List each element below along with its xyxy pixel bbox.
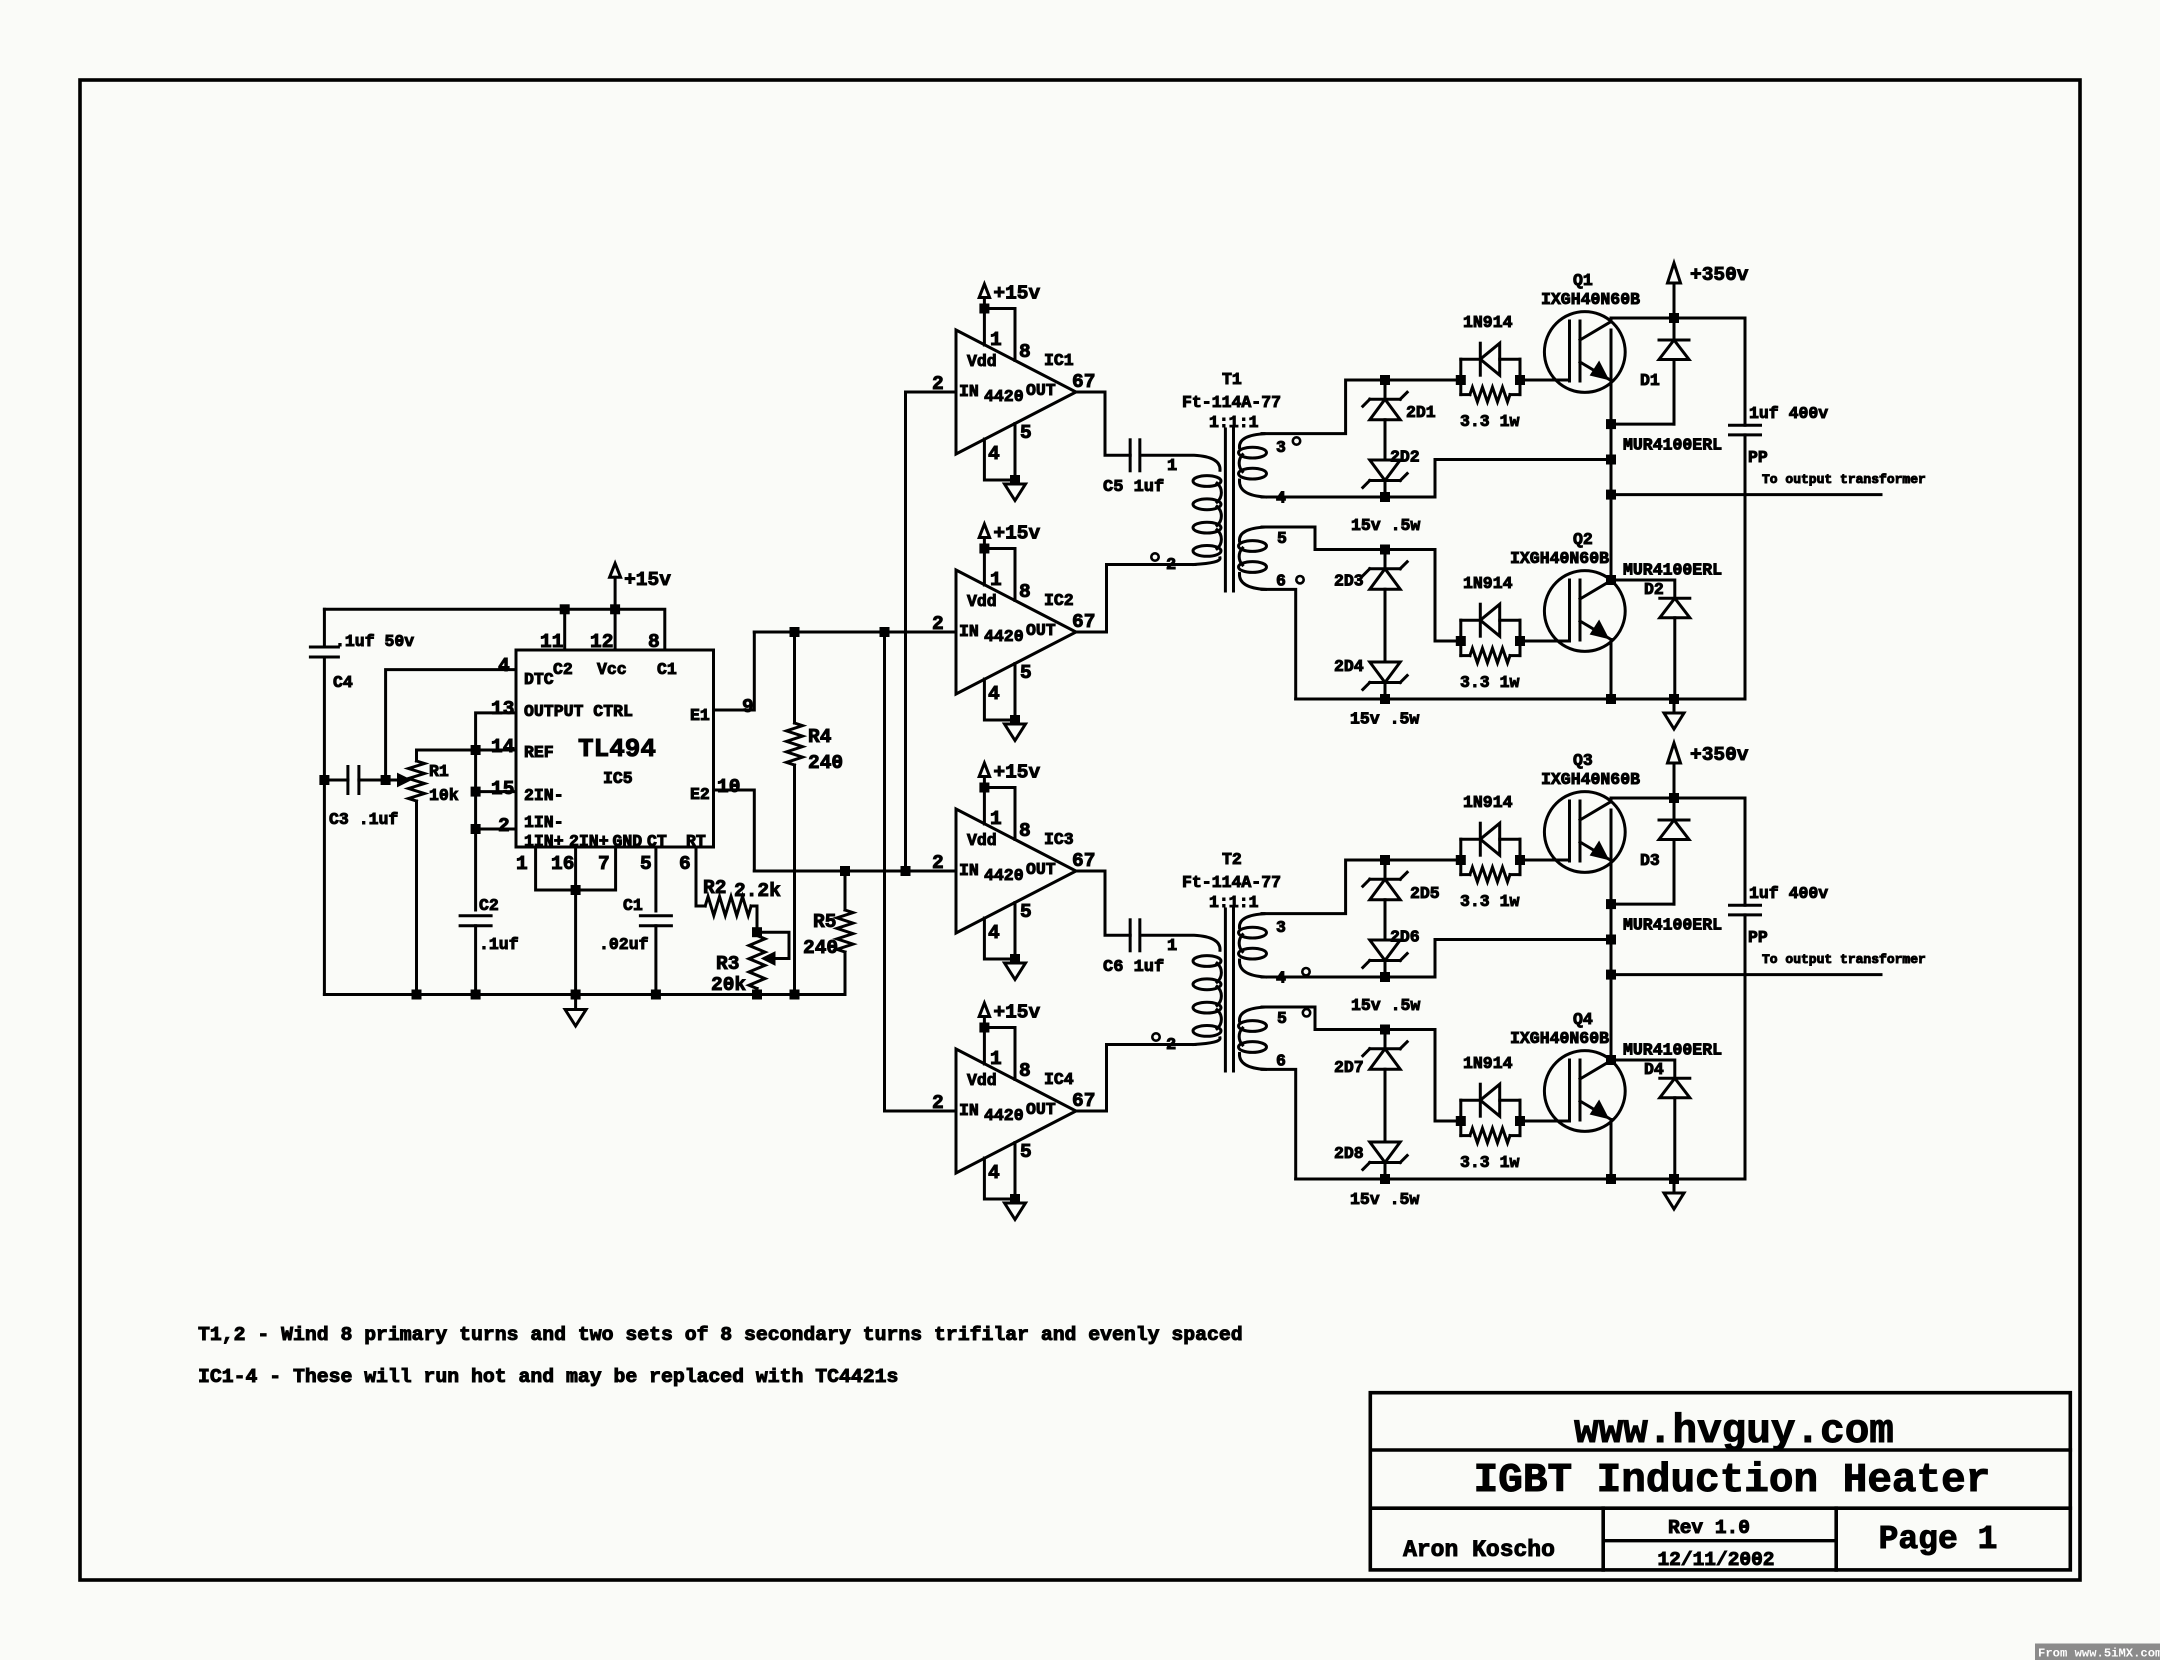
svg-text:5: 5	[1277, 1009, 1287, 1028]
diode D1 MUR4100ERL	[1673, 318, 1676, 340]
gate driver IC2 4420	[956, 570, 1076, 694]
transformer T1 core	[1224, 429, 1227, 591]
node Q4 collector D4	[1606, 1055, 1616, 1065]
wire C2 top	[474, 829, 477, 910]
svg-text:3.3 1w: 3.3 1w	[1460, 1153, 1520, 1172]
phase dot T1 pin6	[1296, 576, 1303, 583]
resistor R2	[705, 897, 751, 916]
svg-text:3: 3	[1276, 438, 1286, 457]
svg-text:2: 2	[932, 613, 944, 635]
diode D2 MUR4100ERL	[1611, 580, 1675, 598]
wire left vertical	[323, 657, 326, 995]
svg-text:R3: R3	[716, 953, 739, 975]
wire IC1 input	[906, 391, 957, 394]
svg-text:13: 13	[491, 698, 514, 720]
node REF cross	[471, 745, 481, 755]
svg-text:OUT: OUT	[1026, 381, 1056, 400]
transistor Q4 IXGH40N60B	[1544, 1051, 1625, 1132]
wire IC3 pin8	[984, 788, 1015, 840]
svg-text:4: 4	[988, 683, 1000, 705]
svg-text:IXGH40N60B: IXGH40N60B	[1510, 549, 1609, 568]
+15v supply IC1	[983, 298, 986, 309]
node R5 top	[840, 866, 850, 876]
zener 2D8	[1370, 1161, 1400, 1164]
transformer T1 secondary A	[1239, 434, 1265, 448]
svg-text:+15v: +15v	[993, 283, 1040, 305]
svg-text:+15v: +15v	[993, 762, 1040, 784]
wire IC4 pin4	[984, 1158, 1015, 1199]
title block divider 1	[1370, 1448, 2070, 1452]
svg-text:PP: PP	[1748, 448, 1768, 467]
node IC3 vdd	[979, 783, 989, 793]
svg-text:Page 1: Page 1	[1879, 1521, 1998, 1558]
svg-text:E1: E1	[690, 706, 710, 725]
svg-text:D1: D1	[1640, 371, 1660, 390]
zener 2D2	[1370, 479, 1400, 482]
wire gate lead #1	[1520, 379, 1570, 382]
svg-text:.02uf: .02uf	[599, 935, 649, 954]
gate driver IC1 4420	[956, 330, 1076, 454]
wire pin16 stub	[574, 847, 577, 890]
svg-text:7: 7	[598, 853, 610, 875]
svg-text:1N914: 1N914	[1463, 793, 1513, 812]
wire zener middle 2D5-2D6	[1384, 900, 1387, 940]
svg-text:4: 4	[988, 1162, 1000, 1184]
svg-text:From www.5iMX.com: From www.5iMX.com	[2038, 1647, 2160, 1660]
wire emitter rail #0	[1296, 698, 1745, 701]
svg-text:3.3 1w: 3.3 1w	[1460, 892, 1520, 911]
phase dot T1 pin3	[1293, 437, 1300, 444]
wire +15v rail	[324, 609, 664, 650]
svg-text:15: 15	[491, 778, 514, 800]
node gate net left #1	[1456, 375, 1466, 385]
diode 1N914 #3	[1461, 838, 1481, 841]
svg-text:.1uf 50v: .1uf 50v	[335, 632, 414, 651]
node Q2 emitter rail	[1606, 694, 1616, 704]
svg-text:R2: R2	[703, 877, 726, 899]
svg-text:C6 1uf: C6 1uf	[1103, 958, 1164, 977]
potentiometer R1 wiper arrow	[386, 779, 399, 782]
wire IC3 pin4	[984, 918, 1015, 959]
diode D4 MUR4100ERL	[1611, 1060, 1675, 1078]
svg-text:D4: D4	[1644, 1060, 1664, 1079]
+350v supply #2	[1673, 763, 1676, 798]
svg-text:15v .5w: 15v .5w	[1350, 710, 1419, 729]
capacitor C5	[1129, 440, 1132, 471]
svg-text:C1: C1	[623, 896, 643, 915]
svg-text:1uf 400v: 1uf 400v	[1749, 884, 1828, 903]
wire pin16 to rail	[574, 890, 577, 995]
svg-text:www.hvguy.com: www.hvguy.com	[1574, 1409, 1894, 1455]
svg-text:11: 11	[540, 631, 563, 653]
svg-text:5: 5	[1020, 422, 1032, 444]
node zener top 2D3	[1380, 545, 1390, 555]
svg-text:.1uf: .1uf	[479, 935, 519, 954]
wire IC2 pin5	[1014, 664, 1017, 721]
svg-text:3.3 1w: 3.3 1w	[1460, 673, 1520, 692]
wire T2 pin6	[1262, 1069, 1296, 1179]
svg-text:Q2: Q2	[1573, 530, 1593, 549]
node zrail 2D8	[1380, 1174, 1390, 1184]
wire Q4 emitter	[1610, 1120, 1613, 1180]
svg-text:IGBT Induction Heater: IGBT Induction Heater	[1474, 1458, 1991, 1504]
wire IC4 pin1 stub	[983, 1028, 986, 1065]
potentiometer R3 wiper	[757, 932, 789, 958]
capacitor 1uf 400v #2	[1744, 798, 1747, 905]
wire T1 pin4	[1262, 460, 1609, 498]
wire IC2 output to T1	[1076, 565, 1195, 633]
node +350 D1	[1669, 313, 1679, 323]
svg-text:2: 2	[932, 1092, 944, 1114]
wire Q1 emitter	[1610, 330, 1613, 580]
node D3 anode	[1606, 899, 1616, 909]
svg-text:4420: 4420	[984, 387, 1024, 406]
+350v supply #1	[1673, 283, 1676, 318]
transistor Q2 IXGH40N60B	[1544, 571, 1625, 652]
svg-text:OUT: OUT	[1026, 1100, 1056, 1119]
svg-text:Q1: Q1	[1573, 271, 1593, 290]
wire gate lead #3	[1520, 859, 1570, 862]
svg-text:Vdd: Vdd	[967, 1071, 997, 1090]
wire pin2 stub	[476, 828, 516, 831]
node gate net left #4	[1456, 1116, 1466, 1126]
svg-text:67: 67	[1072, 611, 1095, 633]
node gate net right #3	[1515, 855, 1525, 865]
svg-text:3: 3	[1276, 918, 1286, 937]
gate network frame #1	[1459, 359, 1462, 394]
resistor R4	[793, 632, 796, 723]
wire REF to R1	[417, 750, 517, 761]
wire C3 left	[324, 779, 348, 782]
svg-text:6: 6	[1276, 1052, 1286, 1071]
watermark From www.5iMX.com	[2035, 1644, 2160, 1660]
svg-text:14: 14	[491, 736, 515, 758]
transformer T2 secondary B	[1239, 1007, 1265, 1021]
svg-text:10: 10	[717, 776, 740, 798]
svg-text:8: 8	[1019, 341, 1031, 363]
svg-text:+15v: +15v	[993, 1002, 1040, 1024]
wire pin15 stub	[476, 790, 516, 793]
svg-text:12/11/2002: 12/11/2002	[1657, 1549, 1774, 1571]
svg-text:1: 1	[1167, 937, 1177, 956]
svg-text:C3 .1uf: C3 .1uf	[329, 810, 398, 829]
capacitor C1	[640, 914, 671, 917]
svg-text:1N914: 1N914	[1463, 313, 1513, 332]
wire pin11 stub	[563, 609, 566, 650]
wire IC3 output to C6	[1076, 871, 1130, 935]
svg-text:8: 8	[1019, 581, 1031, 603]
zener 2D5	[1384, 860, 1387, 879]
svg-text:+350v: +350v	[1690, 744, 1749, 766]
node gate net left #3	[1456, 855, 1466, 865]
svg-text:1N914: 1N914	[1463, 1054, 1513, 1073]
title block vertical 1	[1601, 1508, 1605, 1570]
node IC4 vdd	[979, 1023, 989, 1033]
node C2 rail	[471, 990, 481, 1000]
node rail-12	[610, 604, 620, 614]
svg-text:+350v: +350v	[1690, 264, 1749, 286]
svg-text:OUT: OUT	[1026, 860, 1056, 879]
svg-text:2: 2	[1166, 1036, 1176, 1055]
svg-text:5: 5	[1020, 1141, 1032, 1163]
svg-text:OUTPUT CTRL: OUTPUT CTRL	[524, 702, 633, 721]
ground IC1	[1010, 475, 1020, 485]
node gate net right #2	[1515, 636, 1525, 646]
wire C4 top	[323, 609, 326, 647]
node zrail 2D4	[1380, 694, 1390, 704]
wire IC1 pin4	[984, 439, 1015, 480]
svg-text:R5: R5	[813, 911, 836, 933]
phase dot T2 pin5	[1303, 1009, 1310, 1016]
title block divider rev/date	[1603, 1539, 1836, 1542]
gate network frame #2	[1459, 620, 1462, 655]
wire pin9 E1	[714, 632, 755, 710]
transformer T2 secondary A	[1239, 914, 1265, 928]
svg-text:Aron Koscho: Aron Koscho	[1403, 1537, 1555, 1563]
+15v supply IC3	[983, 777, 986, 788]
diode 1N914 #1	[1461, 358, 1481, 361]
svg-text:67: 67	[1072, 1090, 1095, 1112]
wire pin12 stub	[614, 609, 617, 650]
capacitor C4	[310, 646, 338, 649]
wire zener middle 2D3-2D4	[1384, 589, 1387, 662]
svg-text:9: 9	[742, 696, 754, 718]
svg-text:MUR4100ERL: MUR4100ERL	[1623, 1041, 1722, 1060]
svg-text:8: 8	[1019, 820, 1031, 842]
+15v supply IC2	[983, 538, 986, 549]
gate driver IC4 4420	[956, 1049, 1076, 1173]
node D1 anode	[1606, 419, 1616, 429]
diode D3 MUR4100ERL	[1673, 798, 1676, 820]
svg-text:2D7: 2D7	[1334, 1058, 1364, 1077]
svg-text:Vdd: Vdd	[967, 352, 997, 371]
node R3 rail	[752, 990, 762, 1000]
wire IC3 pin1 stub	[983, 788, 986, 825]
ground rail #0	[1669, 694, 1679, 704]
node zener top 2D5	[1380, 855, 1390, 865]
svg-text:Ft-114A-77: Ft-114A-77	[1182, 393, 1281, 412]
svg-text:4: 4	[988, 922, 1000, 944]
svg-text:OUT: OUT	[1026, 621, 1056, 640]
title block divider 2	[1370, 1506, 2070, 1510]
wire gate lead #2	[1520, 640, 1570, 643]
svg-text:2D5: 2D5	[1410, 884, 1440, 903]
svg-text:8: 8	[648, 631, 660, 653]
phase dot T2 pin2	[1152, 1033, 1159, 1040]
svg-text:1IN-: 1IN-	[524, 813, 564, 832]
svg-text:1: 1	[990, 329, 1002, 351]
node R1 rail	[412, 990, 422, 1000]
potentiometer R1	[409, 761, 425, 801]
zener 2D7	[1384, 1030, 1387, 1049]
node pin16 bracket	[571, 885, 581, 895]
wire IC1 output to C5	[1076, 392, 1130, 455]
svg-text:IXGH40N60B: IXGH40N60B	[1541, 290, 1640, 309]
+15v supply IC4	[983, 1017, 986, 1028]
node DTC junction	[381, 775, 391, 785]
wire R2 to R3	[751, 906, 757, 932]
svg-text:TL494: TL494	[578, 734, 656, 764]
svg-text:3.3 1w: 3.3 1w	[1460, 412, 1520, 431]
svg-text:IC4: IC4	[1044, 1070, 1074, 1089]
svg-text:5: 5	[1277, 529, 1287, 548]
wire Q2 emitter	[1610, 640, 1613, 700]
wire T2 pin5	[1262, 1007, 1461, 1121]
svg-text:Vcc: Vcc	[597, 660, 627, 679]
svg-text:2D2: 2D2	[1390, 448, 1420, 467]
ground rail #1	[1669, 1174, 1679, 1184]
node zener top 2D1	[1380, 375, 1390, 385]
node E1-A	[880, 627, 890, 637]
svg-text:1N914: 1N914	[1463, 574, 1513, 593]
wire IC2 pin1 stub	[983, 549, 986, 586]
svg-text:20k: 20k	[711, 974, 746, 996]
wire R1 bottom	[415, 801, 418, 995]
svg-text:4: 4	[988, 443, 1000, 465]
svg-text:IC3: IC3	[1044, 830, 1074, 849]
wire to output transformer #0	[1611, 493, 1881, 496]
ground TL494	[571, 990, 581, 1000]
diode 1N914 #4	[1461, 1099, 1481, 1102]
wire IC1 pin5	[1014, 424, 1017, 481]
svg-text:C1: C1	[657, 660, 677, 679]
svg-text:Rev 1.0: Rev 1.0	[1668, 1517, 1750, 1539]
svg-text:2D6: 2D6	[1390, 928, 1420, 947]
transformer T1 secondary B	[1239, 527, 1265, 541]
wire IC3 pin5	[1014, 903, 1017, 960]
node zener bottom 2D2	[1380, 492, 1390, 502]
svg-text:5: 5	[1020, 901, 1032, 923]
svg-text:2: 2	[498, 815, 510, 837]
wire T1 pin6	[1262, 589, 1296, 699]
ground IC2	[1010, 715, 1020, 725]
svg-text:2: 2	[1166, 556, 1176, 575]
wire zener middle 2D1-2D2	[1384, 420, 1387, 460]
node E2-B	[901, 866, 911, 876]
wire T2 pin3	[1262, 860, 1461, 914]
svg-text:MUR4100ERL: MUR4100ERL	[1623, 561, 1722, 580]
svg-text:To output transformer: To output transformer	[1762, 472, 1926, 487]
transformer T2 core	[1224, 909, 1227, 1071]
node zener top 2D7	[1380, 1025, 1390, 1035]
svg-text:1: 1	[990, 808, 1002, 830]
node rail-11	[560, 604, 570, 614]
wire IC2 pin8	[984, 549, 1015, 601]
node R4 rail	[790, 990, 800, 1000]
svg-text:D2: D2	[1644, 580, 1664, 599]
ground IC4	[1010, 1194, 1020, 1204]
svg-text:1: 1	[990, 569, 1002, 591]
gate driver IC3 4420	[956, 809, 1076, 933]
svg-text:1: 1	[990, 1048, 1002, 1070]
node gate net right #4	[1515, 1116, 1525, 1126]
diode 1N914 #2	[1461, 619, 1481, 622]
zener 2D1	[1384, 380, 1387, 399]
transformer T1 primary	[1140, 455, 1220, 470]
wire T1 pin3	[1262, 380, 1461, 434]
resistor 3.3 1w #4	[1470, 1128, 1510, 1143]
node Q2 collector D2	[1606, 575, 1616, 585]
node zener bottom 2D4	[1380, 694, 1390, 704]
wire pin4 DTC	[386, 670, 516, 780]
wire E2 bus	[754, 870, 956, 873]
svg-text:15v .5w: 15v .5w	[1351, 996, 1420, 1015]
svg-text:C2: C2	[479, 896, 499, 915]
transistor Q1 IXGH40N60B	[1544, 312, 1625, 393]
wire IC1 pin1 stub	[983, 309, 986, 346]
svg-text:Ft-114A-77: Ft-114A-77	[1182, 873, 1281, 892]
phase dot T1 pin2	[1151, 553, 1158, 560]
svg-text:240: 240	[803, 937, 838, 959]
svg-text:Vdd: Vdd	[967, 592, 997, 611]
wire pins 1-16-7 bracket	[536, 847, 616, 890]
wire E1 bus	[754, 631, 956, 634]
node pin15	[471, 787, 481, 797]
svg-text:IN: IN	[959, 622, 979, 641]
svg-text:IC5: IC5	[603, 769, 633, 788]
node R4 top	[790, 627, 800, 637]
svg-text:C2: C2	[553, 660, 573, 679]
wire Q3 emitter	[1610, 810, 1613, 1060]
svg-text:2D4: 2D4	[1334, 657, 1364, 676]
phase dot T2 pin4	[1302, 968, 1309, 975]
IC U5 TL494 body	[516, 650, 714, 847]
potentiometer R3	[749, 936, 765, 989]
wire pin10 E2	[714, 790, 755, 871]
svg-text:PP: PP	[1748, 928, 1768, 947]
svg-text:12: 12	[590, 631, 613, 653]
svg-text:5: 5	[640, 853, 652, 875]
svg-text:8: 8	[1019, 1060, 1031, 1082]
wire IC1 input to E2 vertical	[904, 392, 907, 871]
wire R3 bottom	[756, 989, 759, 995]
resistor 3.3 1w #1	[1470, 387, 1510, 402]
wire emitter rail #1	[1296, 1178, 1745, 1181]
svg-text:4420: 4420	[984, 627, 1024, 646]
svg-text:C5 1uf: C5 1uf	[1103, 478, 1164, 497]
svg-text:IC2: IC2	[1044, 591, 1074, 610]
node zener bottom 2D8	[1380, 1174, 1390, 1184]
wire T1 pin5	[1262, 527, 1461, 641]
ground IC3	[1010, 954, 1020, 964]
resistor 3.3 1w #3	[1470, 867, 1510, 882]
svg-text:67: 67	[1072, 850, 1095, 872]
node gate net left #2	[1456, 636, 1466, 646]
svg-text:Vdd: Vdd	[967, 831, 997, 850]
zener 2D4	[1370, 681, 1400, 684]
wire ground rail	[324, 993, 845, 996]
svg-text:10k: 10k	[429, 786, 459, 805]
wire T2 pin4	[1262, 940, 1609, 978]
svg-text:To output transformer: To output transformer	[1762, 952, 1926, 967]
resistor R5	[844, 871, 847, 910]
capacitor C6	[1129, 920, 1132, 951]
svg-text:T1,2 - Wind 8 primary turns an: T1,2 - Wind 8 primary turns and two sets…	[198, 1324, 1243, 1346]
node zener bottom 2D6	[1380, 972, 1390, 982]
svg-text:1IN+: 1IN+	[524, 832, 564, 851]
wire zener middle 2D7-2D8	[1384, 1069, 1387, 1142]
title block frame	[1370, 1393, 2070, 1570]
wire C3 right	[359, 779, 386, 782]
svg-text:IN: IN	[959, 1101, 979, 1120]
wire IC4 pin8	[984, 1028, 1015, 1080]
svg-text:4420: 4420	[984, 1106, 1024, 1125]
svg-text:MUR4100ERL: MUR4100ERL	[1623, 435, 1722, 454]
svg-text:+15v: +15v	[993, 523, 1040, 545]
wire +350v rail Q3	[1611, 798, 1745, 802]
svg-text:IC1: IC1	[1044, 351, 1074, 370]
wire IC1 pin8	[984, 309, 1015, 361]
